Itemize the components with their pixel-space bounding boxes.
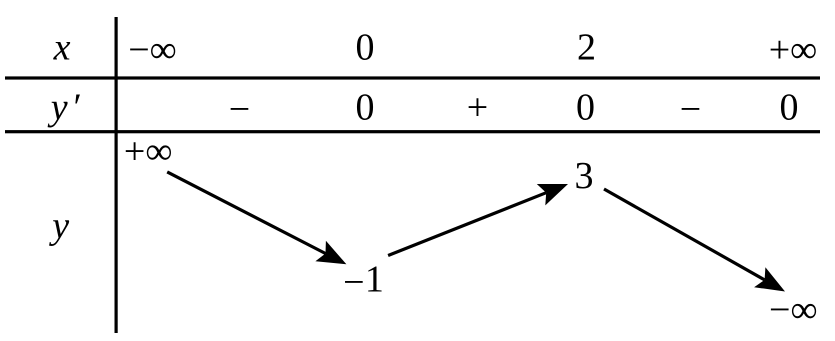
arrow increasing from -1 to 3 [388,184,568,256]
arrow decreasing from +infinity to -1 [167,172,346,264]
svg-text:3: 3 [575,155,594,197]
svg-text:y: y [47,87,68,129]
svg-text:−∞: −∞ [769,289,818,331]
svg-text:0: 0 [780,87,799,129]
svg-text:+∞: +∞ [124,131,173,173]
horizontal line under y' row [5,130,820,133]
svg-text:+: + [467,87,488,129]
arrow decreasing from 3 to -infinity [604,189,785,292]
svg-text:0: 0 [356,87,375,129]
svg-text:−: − [343,262,364,304]
svg-text:0: 0 [576,87,595,129]
svg-text:x: x [53,27,71,69]
svg-text:2: 2 [577,27,596,69]
svg-text:1: 1 [365,259,384,301]
svg-text:0: 0 [356,27,375,69]
vertical header divider line [115,17,118,333]
svg-text:y: y [48,205,69,247]
svg-text:−: − [229,89,250,131]
svg-text:−∞: −∞ [128,29,177,71]
horizontal line under x row [5,76,820,79]
svg-text:+∞: +∞ [769,29,818,71]
svg-text:′: ′ [73,87,81,129]
svg-text:−: − [680,89,701,131]
